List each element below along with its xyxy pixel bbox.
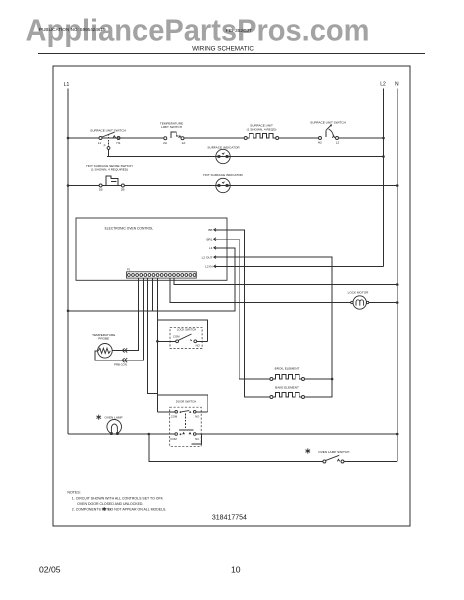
svg-text:OVEN LAMP SWITCH: OVEN LAMP SWITCH	[318, 450, 349, 454]
wire L1 bus	[67, 89, 69, 435]
svg-text:L2: L2	[380, 82, 386, 88]
border frame	[53, 66, 410, 526]
svg-text:BAKE ELEMENT: BAKE ELEMENT	[275, 385, 299, 389]
svg-text:SURFACE INDICATOR: SURFACE INDICATOR	[207, 146, 240, 150]
notes text block	[67, 491, 166, 512]
resistor broil element	[270, 375, 305, 381]
svg-text:L2: L2	[336, 141, 340, 145]
junction dot broil-L2OUT	[331, 378, 334, 381]
resistor temperature probe	[98, 344, 113, 359]
svg-text:DO NOT APPEAR ON ALL MODELS.: DO NOT APPEAR ON ALL MODELS.	[108, 508, 166, 512]
wire door NC to N	[196, 433, 397, 435]
svg-text:PUBLICATION NO: 5995424619: PUBLICATION NO: 5995424619	[39, 27, 106, 32]
junction dot lock feed	[156, 340, 159, 343]
label oven lamp with star	[96, 415, 101, 420]
svg-text:BROIL ELEMENT: BROIL ELEMENT	[275, 367, 300, 371]
wire lamp row L1 to door COM	[68, 433, 175, 435]
svg-text:BRL: BRL	[206, 238, 212, 242]
linkage door switch dashed link	[179, 414, 193, 431]
junction dot indicator-L2	[382, 155, 385, 158]
svg-text:DOOR SWITCH: DOOR SWITCH	[176, 399, 196, 403]
relay K2 door switch assembly box	[157, 395, 207, 412]
motor M1 lock motor	[351, 296, 369, 309]
wire strip pin11 to lock motor	[170, 278, 351, 302]
svg-text:SURFACE UNIT SWITCH: SURFACE UNIT SWITCH	[90, 129, 126, 133]
junction dot N-284	[396, 283, 399, 286]
wire probe top drop	[112, 278, 138, 350]
svg-text:H1: H1	[117, 141, 121, 145]
header underline	[38, 53, 425, 55]
svg-text:LOCK SWITCH: LOCK SWITCH	[177, 327, 196, 331]
junction dot N-302	[396, 301, 399, 304]
wire BRL to broil element	[227, 239, 270, 379]
pins P1 terminal circles	[127, 274, 195, 277]
svg-text:ELECTRONIC OVEN CONTROL: ELECTRONIC OVEN CONTROL	[105, 226, 154, 230]
wire row2 hot-surface line segments	[68, 185, 397, 187]
svg-text:L2 IN: L2 IN	[205, 265, 212, 269]
svg-text:COM: COM	[171, 414, 178, 418]
wire L2 IN from L2 bus	[227, 265, 384, 267]
svg-text:FEF352CJT: FEF352CJT	[226, 28, 252, 34]
box door switch dashed	[170, 407, 202, 446]
svg-text:PRB CON: PRB CON	[114, 362, 127, 366]
switch S3 surface unit switch right	[318, 125, 340, 145]
svg-text:N: N	[395, 82, 399, 88]
svg-text:2B: 2B	[121, 187, 125, 191]
pin BB stub	[208, 228, 227, 232]
svg-text:H2: H2	[318, 141, 322, 145]
wire lock-door feed	[156, 278, 158, 412]
wire probe bottom drop	[95, 278, 144, 360]
relay K1 lock switch assembly box	[157, 320, 207, 350]
pin L2 OUT stub	[202, 255, 227, 259]
label oven lamp switch with star	[306, 448, 311, 453]
svg-text:BB: BB	[208, 228, 212, 232]
svg-text:NC: NC	[195, 437, 199, 441]
wire strip pin6 to L1 line	[151, 278, 153, 311]
junction dot row2-L1	[67, 184, 70, 187]
lamp oven lamp	[107, 420, 122, 435]
svg-text:L1: L1	[98, 141, 102, 145]
wire door NC hook	[192, 434, 202, 444]
note star symbol	[103, 507, 106, 511]
wire lock COM branch	[157, 340, 175, 342]
switch S6 door switch upper contacts	[157, 411, 200, 419]
svg-text:COM: COM	[173, 335, 180, 339]
pin BRL stub	[206, 238, 227, 242]
svg-text:PROBE: PROBE	[98, 337, 109, 341]
svg-text:WIRING SCHEMATIC: WIRING SCHEMATIC	[192, 46, 254, 53]
svg-text:LIMIT SWITCH: LIMIT SWITCH	[161, 125, 182, 129]
wire row1 surface-unit line segments	[68, 137, 384, 139]
wire strip pin12 to N	[174, 278, 397, 284]
svg-text:P: P	[104, 143, 106, 147]
wire lock NC out	[197, 340, 208, 342]
svg-text:HOT SURFACE INDICATOR: HOT SURFACE INDICATOR	[203, 173, 243, 177]
svg-text:10: 10	[231, 565, 241, 575]
junction dot row2-N	[396, 184, 399, 187]
resistor surface unit element	[244, 133, 279, 139]
wire L1 feed to EOC	[68, 248, 235, 311]
resistor bake element	[270, 393, 305, 399]
junction dot lamp row	[148, 433, 151, 436]
wire strip pin5 jog to door feed	[148, 278, 158, 394]
switch S2 temperature limit switch	[163, 132, 186, 145]
svg-text:L1: L1	[209, 246, 213, 250]
switch S5 lock switch contacts	[173, 334, 201, 347]
svg-text:318417754: 318417754	[212, 515, 247, 522]
switch S8 oven lamp switch	[323, 455, 344, 463]
svg-text:L1: L1	[64, 82, 70, 88]
wire oven lamp switch row	[149, 434, 397, 462]
wire N bus	[396, 89, 398, 462]
connector probe chevrons	[122, 348, 127, 362]
svg-text:1B: 1B	[99, 187, 103, 191]
pin L2 IN stub	[205, 265, 227, 269]
connector P1 terminal strip	[127, 268, 197, 278]
wire BB to bake element	[227, 230, 270, 397]
junction dot L1 feed	[67, 310, 70, 313]
junction dot N-434	[396, 433, 399, 436]
pin L1 stub	[209, 246, 227, 250]
lamp surface indicator	[216, 149, 230, 163]
svg-text:L2 OUT: L2 OUT	[202, 255, 213, 259]
wire broil right link	[305, 378, 333, 380]
svg-text:SURFACE UNIT SWITCH: SURFACE UNIT SWITCH	[310, 121, 346, 125]
lamp hot surface indicator	[216, 178, 230, 192]
switch S7 door switch lower contacts	[170, 432, 199, 441]
svg-text:1. CIRCUIT SHOWN WITH ALL CON: 1. CIRCUIT SHOWN WITH ALL CONTROLS SET T…	[72, 497, 164, 501]
svg-text:LOCK MOTOR: LOCK MOTOR	[348, 290, 370, 294]
wire L2 bus	[383, 89, 385, 267]
wire lock motor to N	[369, 302, 397, 304]
svg-text:(1 SHOWN, 4 REQD): (1 SHOWN, 4 REQD)	[247, 127, 277, 131]
switch S4 hot surface sense switch	[99, 176, 125, 191]
svg-text:COM: COM	[170, 437, 177, 441]
svg-text:OVEN DOOR CLOSED AND UNLOCKED.: OVEN DOOR CLOSED AND UNLOCKED.	[77, 502, 143, 506]
wire L2 OUT to elements	[227, 257, 332, 397]
junction dot row1-L2	[382, 137, 385, 140]
svg-text:(1 SHOWN, 4 REQUIRED): (1 SHOWN, 4 REQUIRED)	[91, 168, 128, 172]
wire pilot P drop	[108, 149, 110, 156]
switch S1 surface unit switch	[98, 132, 121, 149]
svg-text:NOTES:: NOTES:	[67, 491, 80, 495]
wire door NO out	[196, 411, 208, 413]
svg-text:02/05: 02/05	[39, 565, 61, 575]
box lock switch dashed	[170, 327, 202, 348]
wire surface indicator row	[107, 156, 384, 158]
svg-text:P1: P1	[127, 268, 131, 272]
op-amp U1 electronic oven control box	[76, 218, 227, 280]
svg-text:OVEN LAMP: OVEN LAMP	[105, 416, 123, 420]
junction dot row1-L1	[67, 137, 70, 140]
